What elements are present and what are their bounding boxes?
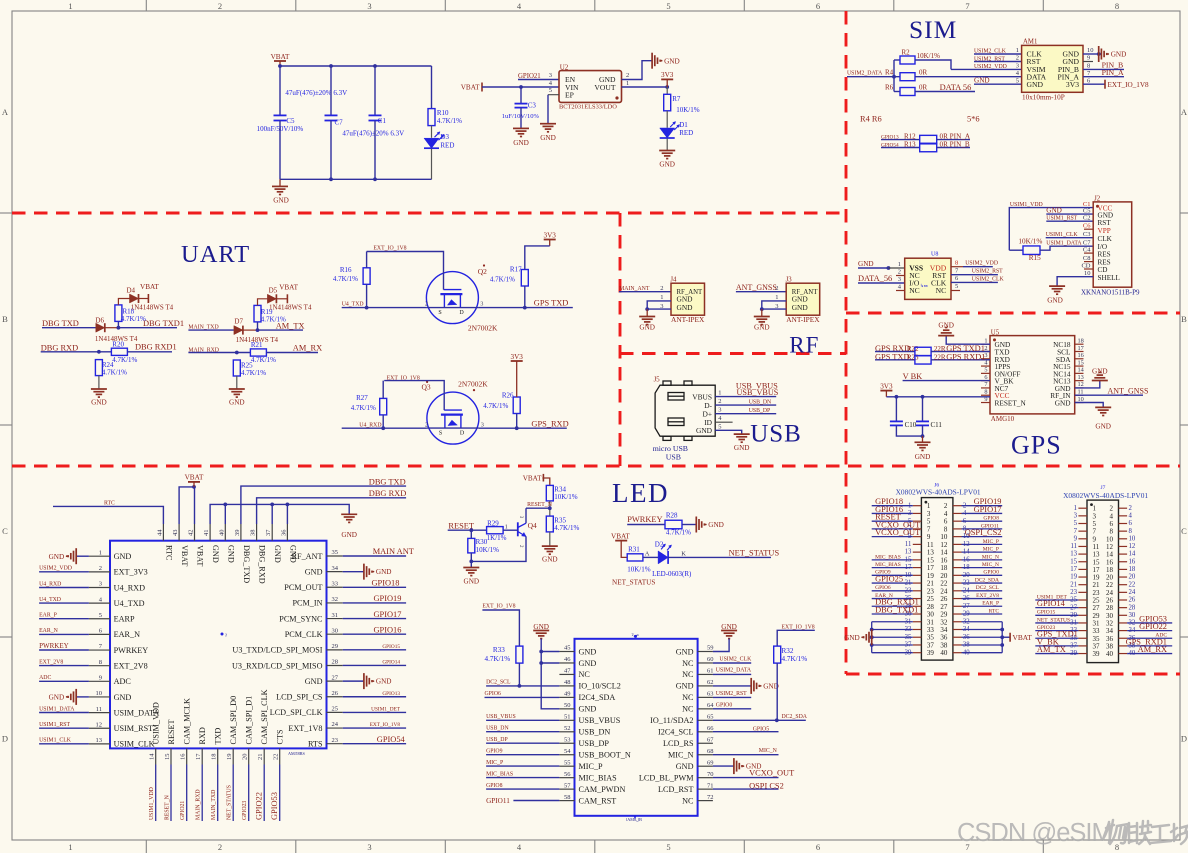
svg-text:8: 8 — [99, 659, 102, 666]
wire U9 pin62 GND to ground symbol — [713, 685, 751, 687]
svg-text:Q2: Q2 — [478, 267, 487, 276]
svg-text:GND: GND — [915, 453, 931, 461]
svg-text:9: 9 — [1074, 535, 1078, 542]
connector J6 inside pin numbers — [927, 502, 948, 657]
svg-text:B: B — [1181, 314, 1187, 324]
svg-text:RTC: RTC — [104, 501, 115, 507]
svg-text:16: 16 — [180, 753, 187, 760]
svg-text:LCD_RST: LCD_RST — [658, 785, 694, 794]
wire R22 to U5 TXD — [931, 351, 990, 353]
svg-text:↳ʙʚ: ↳ʙʚ — [920, 283, 928, 288]
svg-text:RESET_N: RESET_N — [165, 794, 171, 820]
pin numbers 59-72 of U9 — [707, 645, 714, 801]
svg-text:4.7K/1%: 4.7K/1% — [782, 655, 808, 663]
wire VBAT to R31 — [621, 541, 627, 558]
svg-text:ANT-IPEX: ANT-IPEX — [786, 315, 820, 324]
svg-text:USIM1_DET: USIM1_DET — [371, 706, 401, 712]
svg-text:R29: R29 — [487, 519, 499, 527]
svg-text:VOUT: VOUT — [594, 83, 615, 92]
svg-text:2: 2 — [218, 842, 222, 852]
svg-text:24: 24 — [1129, 589, 1136, 596]
wire GND stub pin36 — [286, 504, 288, 524]
svg-text:DC2_SDA: DC2_SDA — [975, 577, 999, 583]
svg-text:D2: D2 — [655, 541, 664, 549]
resistor R33 — [516, 646, 523, 663]
svg-text:SHELL: SHELL — [1098, 274, 1120, 282]
resistor R4 — [900, 73, 915, 81]
svg-text:EXT_2V8: EXT_2V8 — [39, 660, 63, 666]
diode D7 1N4148WS — [234, 326, 243, 335]
resistor R21 — [250, 349, 266, 356]
svg-text:D1: D1 — [679, 121, 688, 129]
svg-text:11: 11 — [905, 541, 912, 548]
svg-text:DBG TXD: DBG TXD — [42, 319, 79, 328]
pin names left inside U9 — [579, 647, 631, 805]
svg-text:Q4: Q4 — [528, 521, 537, 530]
svg-text:GND: GND — [1111, 51, 1127, 59]
svg-text:GND: GND — [708, 521, 724, 529]
power flag VBAT at D4 — [147, 294, 149, 303]
svg-text:8: 8 — [1115, 842, 1119, 852]
svg-text:69: 69 — [707, 759, 714, 766]
svg-text:J5: J5 — [654, 376, 661, 383]
wire RTC from U1 pin44 — [53, 506, 163, 524]
svg-text:BCT2031ELS33/LDO: BCT2031ELS33/LDO — [559, 103, 617, 110]
svg-text:64: 64 — [707, 702, 714, 709]
junction VBAT flag — [192, 485, 196, 489]
svg-text:2: 2 — [99, 565, 102, 572]
svg-text:GPIO18: GPIO18 — [372, 578, 400, 587]
resistor R27 — [380, 398, 387, 415]
svg-text:15: 15 — [1078, 359, 1084, 366]
svg-text:GPIO16: GPIO16 — [374, 625, 402, 634]
svg-text:3V3: 3V3 — [661, 71, 674, 79]
svg-text:GPIO0: GPIO0 — [983, 570, 999, 576]
resistor R30 — [468, 538, 475, 553]
svg-text:R28: R28 — [666, 512, 678, 520]
resistor R18 — [115, 305, 122, 322]
junction J3 ground node — [760, 307, 764, 311]
svg-text:50: 50 — [564, 702, 571, 709]
connector J7 outside pin numbers — [1070, 505, 1136, 657]
svg-text:GND: GND — [792, 303, 809, 312]
resistor R6 — [900, 88, 915, 96]
svg-text:EARP: EARP — [114, 615, 135, 624]
svg-text:GND: GND — [1027, 80, 1044, 89]
svg-text:DBG RXD1: DBG RXD1 — [135, 343, 177, 352]
wire R24 to ground — [98, 376, 100, 389]
wire R12 to PIN_A — [937, 139, 970, 141]
svg-text:GND: GND — [579, 647, 597, 656]
wire R18 to D4 — [117, 321, 119, 327]
svg-text:2: 2 — [775, 285, 778, 292]
junction R25 tap — [235, 351, 239, 355]
ground symbol below R35 — [542, 546, 558, 554]
capacitor C7 — [325, 114, 338, 116]
wire U9 pin65 DC2_SDA — [713, 719, 806, 721]
svg-text:1: 1 — [1016, 47, 1019, 54]
wire J4 ground stem — [646, 309, 648, 316]
svg-text:15: 15 — [164, 754, 171, 761]
svg-text:VCXO_OUT: VCXO_OUT — [749, 769, 794, 778]
svg-text:47uF(476)±20% 6.3V: 47uF(476)±20% 6.3V — [342, 129, 404, 137]
SIM holder AM1 — [1022, 45, 1083, 92]
wire C5 lower lead — [279, 121, 281, 180]
wire R16 bottom to source line — [366, 284, 368, 307]
svg-text:PWRKEY: PWRKEY — [627, 515, 662, 524]
svg-text:PWRKEY: PWRKEY — [39, 642, 69, 650]
wire USIM1_DET from U1 pin25 — [343, 711, 406, 713]
svg-text:10: 10 — [1129, 535, 1136, 542]
svg-text:X0802WVS-40ADS-LPV01: X0802WVS-40ADS-LPV01 — [896, 488, 981, 497]
svg-text:PCM_SYNC: PCM_SYNC — [279, 614, 323, 623]
wire GPIO13 from U1 pin26 — [343, 696, 406, 698]
svg-text:30: 30 — [332, 627, 339, 634]
svg-text:GPIO6: GPIO6 — [875, 585, 891, 591]
svg-text:GPIO22: GPIO22 — [255, 792, 264, 820]
wire U5 pin1 GND up to ground — [946, 336, 990, 345]
svg-text:D: D — [459, 310, 464, 316]
wire Q2 drain to GPS_TXD — [478, 307, 572, 309]
J6 ground bus left — [872, 622, 913, 653]
svg-text:36: 36 — [280, 529, 287, 536]
svg-text:SIM: SIM — [909, 15, 957, 44]
svg-text:GPIO11: GPIO11 — [486, 797, 510, 805]
junction AM_TX node — [256, 328, 260, 332]
wire J3 ground stem — [761, 309, 763, 316]
wire GPIO19 from U1 pin32 — [343, 602, 406, 604]
wire 3V3 to R17 top — [525, 246, 550, 270]
svg-text:D7: D7 — [234, 318, 243, 326]
svg-text:R21: R21 — [251, 341, 263, 349]
svg-text:63: 63 — [707, 691, 714, 698]
svg-text:DBG TXD: DBG TXD — [369, 477, 406, 486]
svg-text:4.7K/1%: 4.7K/1% — [437, 117, 462, 125]
wire U4_RXD to Q3 source — [342, 427, 427, 429]
svg-text:25: 25 — [332, 706, 339, 713]
svg-text:VBAT: VBAT — [196, 545, 205, 566]
svg-text:1: 1 — [68, 1, 72, 11]
svg-text:C: C — [1181, 526, 1187, 536]
wire U9 pin59 GND to ground — [713, 639, 729, 652]
junction C3 tap — [519, 85, 523, 89]
svg-text:34: 34 — [332, 565, 339, 572]
svg-text:6: 6 — [1129, 520, 1133, 527]
svg-text:59: 59 — [707, 645, 714, 652]
svg-text:VBAT: VBAT — [185, 474, 204, 482]
wire U2 EP to ground — [547, 95, 549, 124]
svg-text:NC: NC — [682, 659, 694, 668]
svg-text:39: 39 — [927, 649, 935, 657]
wire C5 upper lead — [279, 66, 281, 115]
svg-text:20: 20 — [242, 754, 249, 761]
svg-text:J4: J4 — [670, 277, 677, 284]
wire U4_TXD to Q2 source — [342, 307, 427, 309]
resistor R31 — [627, 554, 643, 561]
wire U2 GND pin to ground symbol — [622, 61, 653, 80]
svg-text:26: 26 — [332, 690, 339, 697]
svg-text:C: C — [2, 526, 8, 536]
svg-text:16: 16 — [1078, 352, 1084, 359]
ground symbol at U2 EP — [540, 124, 556, 132]
net labels bottom of U1 rotated — [149, 785, 279, 820]
svg-text:GND: GND — [579, 705, 597, 714]
junction R17 tap — [523, 306, 527, 310]
svg-text:ANT-IPEX: ANT-IPEX — [671, 315, 705, 324]
svg-text:GND: GND — [114, 693, 132, 702]
svg-text:IO_10/SCL2: IO_10/SCL2 — [579, 682, 621, 691]
svg-text:GND: GND — [91, 399, 107, 407]
svg-text:28: 28 — [1129, 604, 1136, 611]
svg-text:GPIO15: GPIO15 — [1037, 610, 1056, 616]
svg-text:RTS: RTS — [308, 739, 323, 748]
svg-text:GPIO54: GPIO54 — [377, 735, 406, 744]
wire U9 pin69 GND to ground symbol — [713, 765, 734, 767]
svg-text:4.7K/1%: 4.7K/1% — [666, 529, 691, 537]
svg-text:4.7K/1%: 4.7K/1% — [333, 275, 358, 283]
svg-text:USIM1_VDD: USIM1_VDD — [149, 787, 155, 820]
nano SIM connector J2 — [1093, 202, 1132, 287]
svg-text:UART: UART — [181, 241, 250, 268]
svg-text:GPIO14: GPIO14 — [382, 659, 400, 665]
svg-text:ANT_GNSS: ANT_GNSS — [736, 283, 777, 292]
svg-text:68: 68 — [707, 748, 714, 755]
svg-text:GND: GND — [114, 552, 132, 561]
connector J6 outside pin numbers — [905, 502, 971, 656]
svg-text:C3: C3 — [1083, 231, 1091, 238]
svg-text:DBG_RXD: DBG_RXD — [258, 545, 267, 584]
wire DBG_RXD to R20 — [41, 351, 112, 353]
svg-text:28: 28 — [332, 659, 339, 666]
resistor R28 — [665, 520, 682, 529]
pin numbers 45-58 of U9 — [564, 645, 571, 801]
svg-text:2N7002K: 2N7002K — [468, 324, 498, 333]
svg-text:U2: U2 — [560, 64, 569, 72]
svg-text:VBAT: VBAT — [611, 533, 630, 541]
svg-text:USIM2_RST: USIM2_RST — [972, 268, 1003, 274]
svg-text:MIC_BIAS: MIC_BIAS — [875, 554, 901, 560]
capacitor C10 — [890, 420, 903, 422]
junction R24 tap — [97, 350, 101, 354]
wire R23 to U5 RXD — [931, 359, 990, 361]
svg-text:4.7K/1%: 4.7K/1% — [485, 655, 511, 663]
svg-text:I2C4_SDA: I2C4_SDA — [579, 693, 616, 702]
svg-text:R15: R15 — [1029, 254, 1041, 262]
svg-text:USIM2_VDD: USIM2_VDD — [965, 261, 998, 267]
ground symbol below J3 — [754, 317, 770, 325]
svg-text:1: 1 — [626, 80, 629, 87]
svg-text:CAM_SPI_CLK: CAM_SPI_CLK — [260, 689, 269, 744]
svg-text:GPIO13: GPIO13 — [382, 691, 400, 697]
svg-text:USB_DP: USB_DP — [749, 408, 771, 414]
diode D5 1N4148WS — [267, 294, 276, 303]
junction Q2 source node — [365, 306, 369, 310]
ground symbol sideways at AM1 pin10 — [1099, 46, 1109, 62]
wire MAIN_TXD to D7 — [188, 329, 234, 331]
svg-text:USB_VBUS: USB_VBUS — [486, 714, 516, 720]
svg-text:MIC_BIAS: MIC_BIAS — [875, 562, 901, 568]
pin stubs left of U9 — [559, 652, 574, 801]
svg-text:VBAT: VBAT — [180, 545, 189, 566]
svg-text:VBAT: VBAT — [1013, 633, 1033, 642]
svg-text:10K/1%: 10K/1% — [476, 546, 500, 554]
resistor R35 — [546, 516, 553, 532]
svg-text:NET_STATUS: NET_STATUS — [227, 785, 233, 820]
J6 power bus right VBAT — [962, 622, 1003, 653]
svg-text:RESET_N: RESET_N — [527, 502, 553, 508]
svg-text:EAR_P: EAR_P — [982, 601, 999, 607]
diode D6 1N4148WS — [96, 323, 105, 332]
junction Q4 emitter ground node — [469, 560, 473, 564]
svg-text:1: 1 — [505, 524, 508, 530]
wire R32 to DC2_SDA node — [776, 663, 778, 720]
ground symbol sideways right at U9 pin62 — [751, 678, 761, 694]
svg-text:40: 40 — [218, 530, 225, 537]
svg-text:TXD: TXD — [214, 728, 223, 745]
svg-text:8: 8 — [1129, 528, 1133, 535]
svg-text:GND: GND — [1092, 368, 1108, 376]
svg-text:6: 6 — [816, 842, 820, 852]
red dashed divider horizontal top of UART row — [12, 212, 846, 215]
svg-text:GPIO8: GPIO8 — [983, 516, 999, 522]
svg-text:CTS: CTS — [276, 729, 285, 744]
svg-text:3: 3 — [898, 276, 901, 283]
junction RESET_N node — [548, 506, 552, 510]
svg-text:4: 4 — [1129, 512, 1133, 519]
power flag VBAT at D5 — [286, 294, 288, 303]
svg-text:XKNANO1511B-P9: XKNANO1511B-P9 — [1081, 289, 1140, 297]
svg-text:VBAT: VBAT — [140, 283, 159, 291]
svg-text:5: 5 — [984, 367, 987, 374]
svg-text:GND: GND — [676, 682, 694, 691]
svg-text:46: 46 — [564, 656, 571, 663]
svg-text:17: 17 — [1078, 345, 1084, 352]
SIM switch U8 — [905, 258, 951, 299]
wire DBG_RXD from U1 pin38 — [257, 498, 407, 524]
svg-text:1N4148WS T4: 1N4148WS T4 — [131, 303, 174, 311]
wire R15 to USIM1_DATA net — [1040, 246, 1093, 250]
svg-text:I2C4_SCL: I2C4_SCL — [658, 728, 694, 737]
svg-text:26: 26 — [1129, 597, 1136, 604]
svg-text:70: 70 — [707, 771, 714, 778]
ground symbol sideways right of R28 — [696, 517, 706, 533]
pin names right inside U1 — [232, 552, 323, 749]
svg-text:0R PIN_A: 0R PIN_A — [940, 132, 971, 140]
svg-text:12: 12 — [1129, 543, 1136, 550]
svg-text:1: 1 — [99, 549, 102, 556]
wire GPIO15 from U1 pin29 — [343, 649, 406, 651]
svg-text:MIC_BIAS: MIC_BIAS — [486, 771, 513, 777]
power flag VBAT at U2 input — [481, 83, 483, 92]
svg-text:S: S — [438, 310, 441, 316]
resistor R20 — [111, 348, 127, 355]
svg-text:61: 61 — [707, 668, 714, 675]
svg-text:8: 8 — [1115, 1, 1119, 11]
ground symbol sideways at U2 GND — [652, 53, 662, 69]
svg-text:ADC: ADC — [114, 677, 132, 686]
red dashed divider horizontal full width above bottom sections — [12, 465, 1180, 468]
svg-text:1: 1 — [68, 842, 72, 852]
svg-text:0R PIN_B: 0R PIN_B — [940, 140, 970, 148]
svg-text:12: 12 — [96, 721, 103, 728]
svg-text:CAM_SPI_D1: CAM_SPI_D1 — [245, 696, 254, 745]
svg-text:13: 13 — [905, 549, 912, 556]
wire C3 to ground — [520, 108, 522, 129]
application IC U9 body — [575, 639, 698, 816]
svg-text:USIM2_CLK: USIM2_CLK — [719, 656, 752, 662]
ground symbol sideways right at U9 pin69 — [734, 758, 744, 774]
wire MAIN_ANT from U1 pin35 — [343, 555, 406, 557]
svg-text:K: K — [681, 550, 686, 557]
red dashed divider horizontal between SIM-card area and GPS — [846, 312, 1180, 315]
svg-text:GND: GND — [676, 647, 694, 656]
svg-text:MAIN_RXD: MAIN_RXD — [196, 789, 202, 820]
svg-text:2: 2 — [425, 302, 428, 308]
svg-text:3V3: 3V3 — [511, 353, 524, 361]
svg-text:USB_DP: USB_DP — [579, 739, 610, 748]
wire R7 to D1 — [666, 111, 668, 128]
svg-text:DC2_SCL: DC2_SCL — [976, 585, 1000, 591]
svg-text:3V3: 3V3 — [544, 231, 557, 239]
svg-text:GND: GND — [226, 545, 235, 563]
svg-text:EXT_IO_1V8: EXT_IO_1V8 — [370, 722, 401, 728]
svg-text:30: 30 — [1129, 612, 1136, 619]
resistor R22 — [915, 347, 931, 356]
svg-text:6: 6 — [816, 1, 820, 11]
diode D4 1N4148WS — [130, 294, 139, 303]
svg-text:EXT_IO_1V8: EXT_IO_1V8 — [373, 246, 406, 252]
svg-text:EAR_N: EAR_N — [39, 628, 58, 634]
wire USIM2_DATA to R4 — [847, 76, 900, 78]
J7 right side net wires and labels — [1126, 614, 1173, 654]
wire and ground symbol at U1 pin34 — [343, 571, 364, 573]
svg-text:14: 14 — [149, 753, 156, 760]
wire VBAT top rail — [280, 65, 432, 67]
capacitor C3 — [520, 87, 522, 103]
junction J4 ground node — [645, 307, 649, 311]
capacitor C1 — [369, 114, 382, 116]
svg-text:LCD_RS: LCD_RS — [663, 739, 694, 748]
wire R30 top — [470, 530, 472, 538]
svg-text:17: 17 — [1070, 566, 1077, 573]
svg-text:RES: RES — [1098, 251, 1111, 259]
svg-text:37: 37 — [265, 529, 272, 536]
svg-text:GPIO8: GPIO8 — [486, 783, 503, 789]
svg-text:GND: GND — [639, 324, 655, 332]
svg-text:51: 51 — [564, 714, 571, 721]
svg-text:RST: RST — [1098, 219, 1112, 227]
resistor R24 — [95, 360, 102, 376]
svg-text:GND: GND — [844, 634, 860, 642]
svg-text:R4: R4 — [885, 69, 894, 77]
svg-text:33: 33 — [332, 580, 339, 587]
svg-text:9: 9 — [1087, 55, 1090, 62]
svg-text:AM1: AM1 — [1023, 38, 1037, 45]
svg-text:U8: U8 — [931, 251, 938, 257]
connector J7 inside pin numbers — [1093, 505, 1114, 658]
svg-text:7: 7 — [965, 1, 969, 11]
junction R2/R6 branch — [892, 75, 896, 79]
pin stub U8 pin2 — [896, 275, 905, 277]
pin stubs right of U5 — [1075, 344, 1084, 402]
pin stub U2 EP — [548, 94, 559, 96]
antenna connector J3 ANT-IPEX — [786, 283, 820, 315]
svg-text:J2: J2 — [1094, 195, 1101, 202]
svg-text:49: 49 — [564, 691, 571, 698]
svg-text:MIC_N: MIC_N — [982, 562, 999, 568]
svg-text:GND: GND — [1095, 423, 1111, 431]
svg-text:AM_RX: AM_RX — [293, 343, 322, 352]
